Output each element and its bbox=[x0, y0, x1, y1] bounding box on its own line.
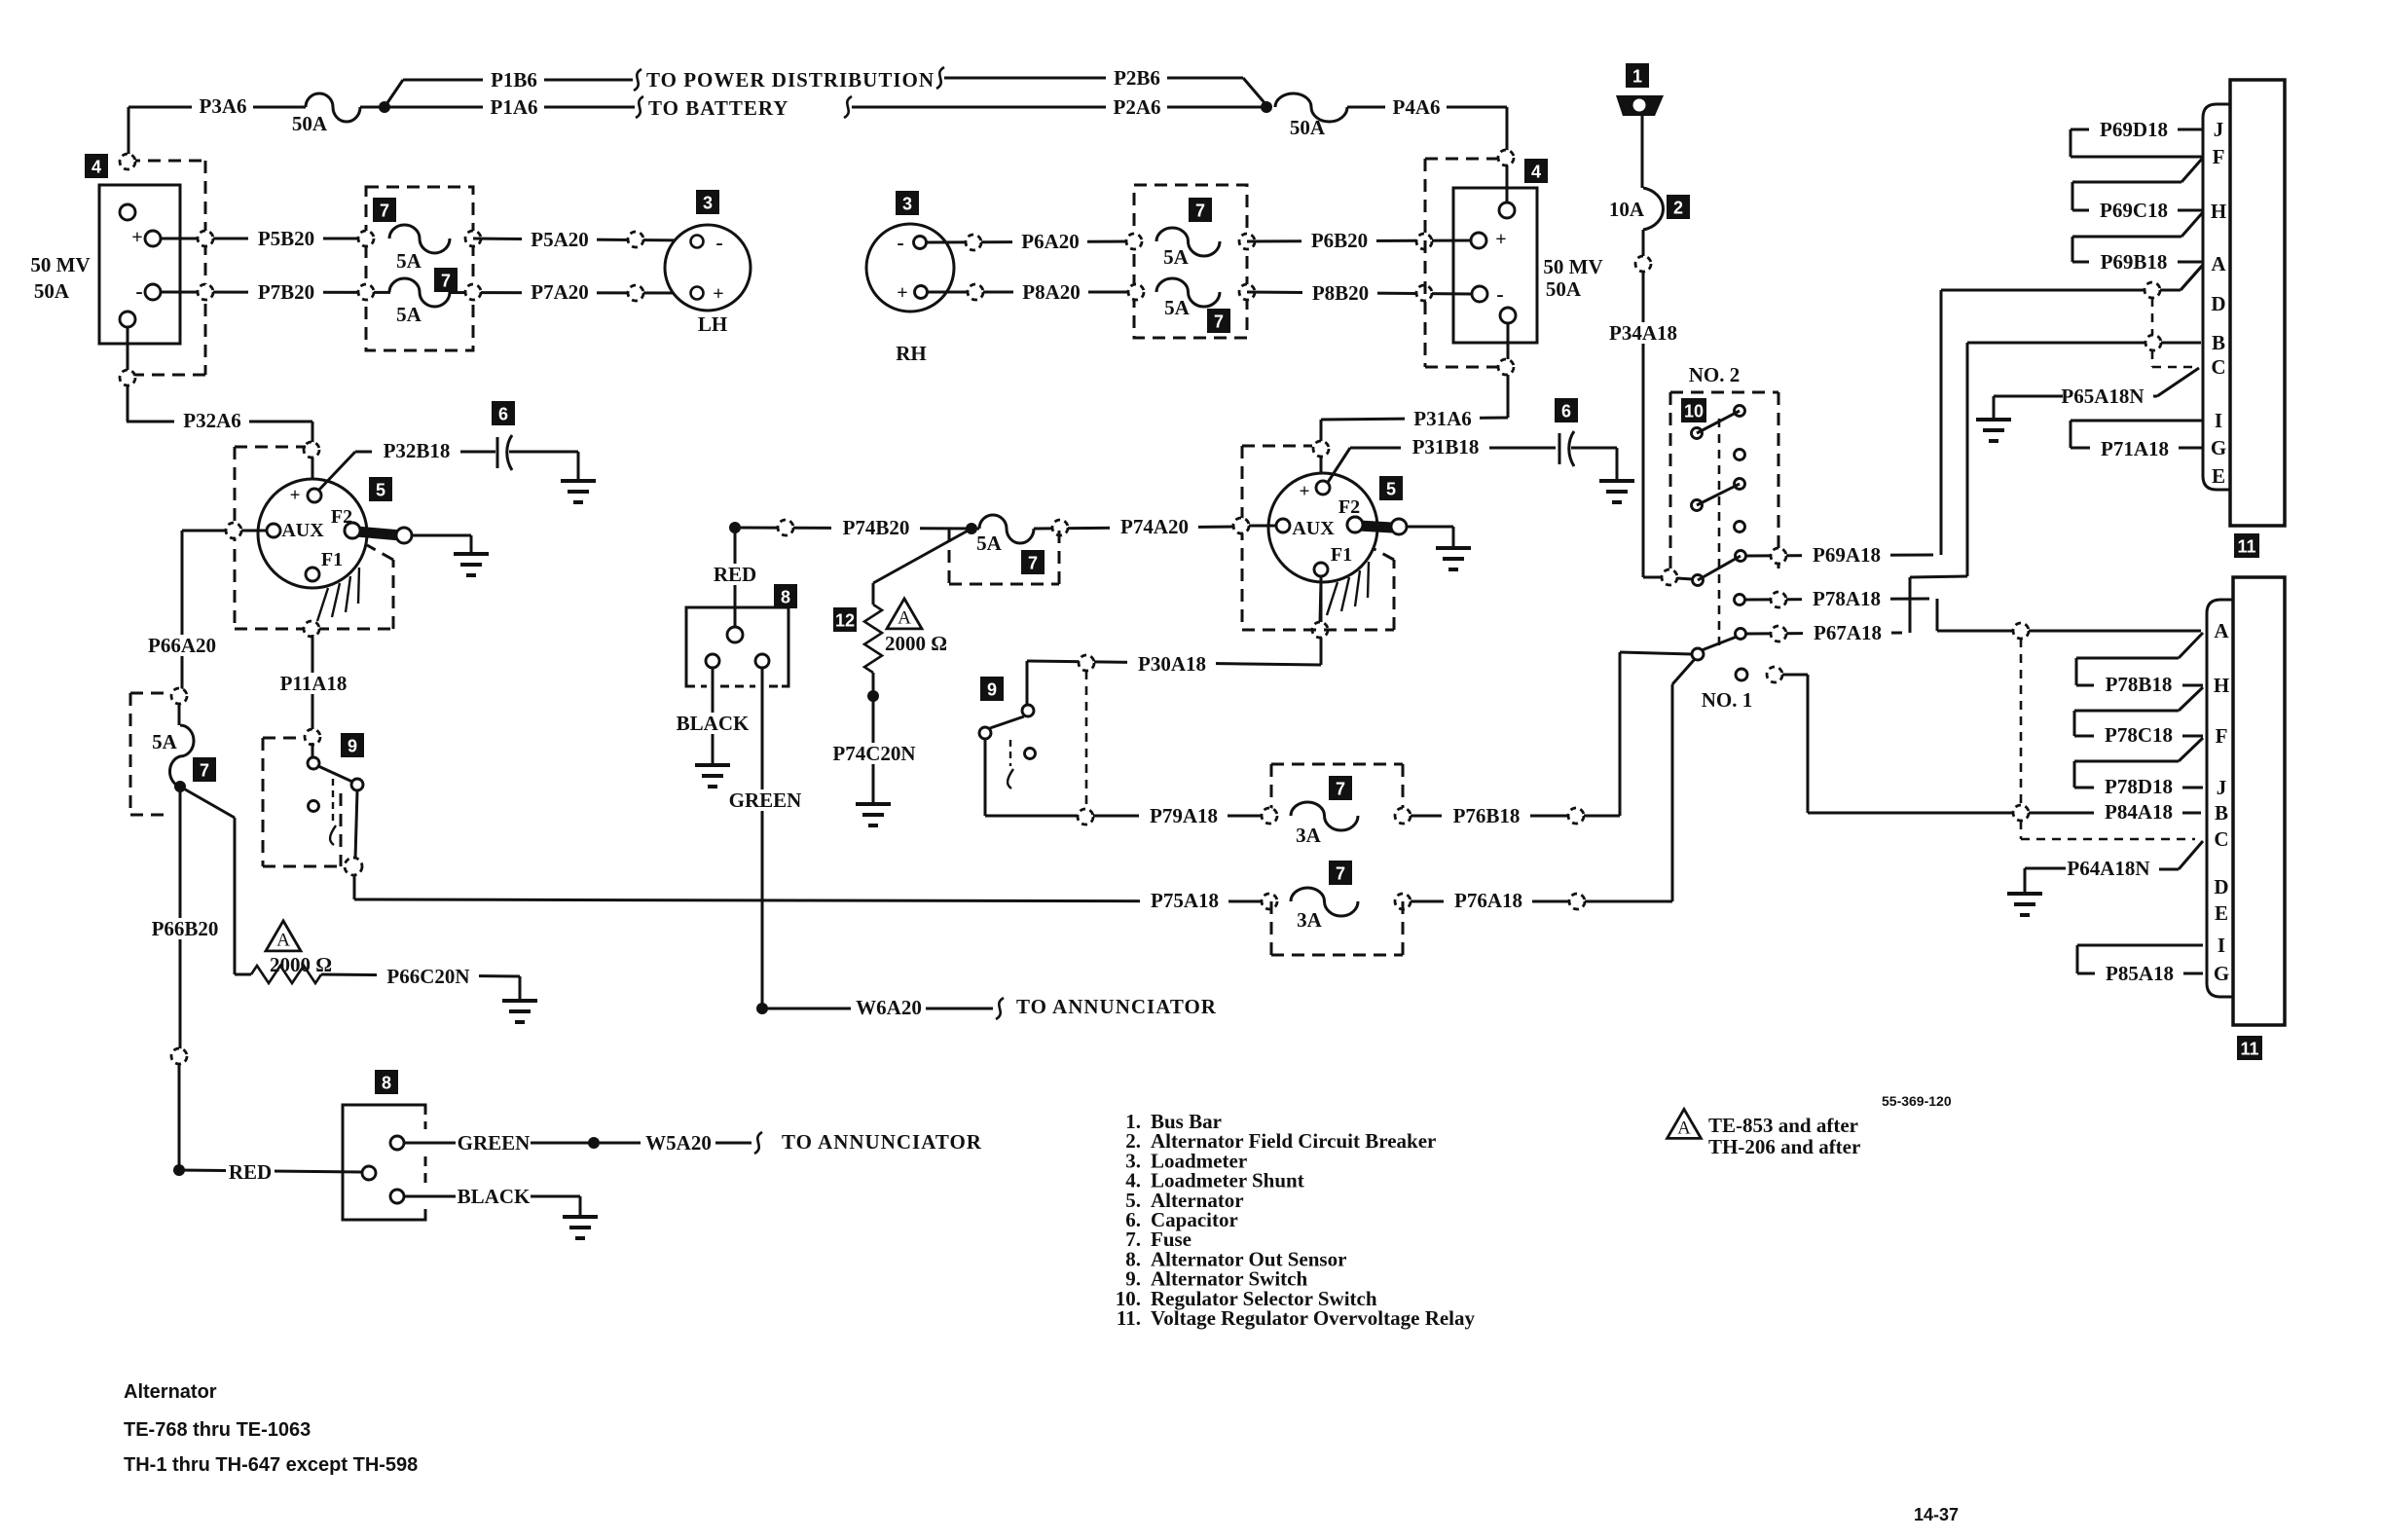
svg-text:50A: 50A bbox=[1290, 116, 1326, 139]
svg-text:P64A18N: P64A18N bbox=[2067, 857, 2149, 880]
svg-text:P67A18: P67A18 bbox=[1814, 621, 1882, 644]
svg-text:+: + bbox=[290, 486, 301, 506]
svg-text:5A: 5A bbox=[1163, 245, 1190, 269]
svg-text:P30A18: P30A18 bbox=[1138, 652, 1206, 676]
svg-text:P75A18: P75A18 bbox=[1151, 889, 1219, 912]
svg-text:B: B bbox=[2212, 331, 2225, 354]
svg-text:P76B18: P76B18 bbox=[1453, 804, 1521, 827]
svg-text:P1B6: P1B6 bbox=[491, 68, 537, 92]
svg-text:+: + bbox=[131, 227, 142, 248]
svg-text:NO. 2: NO. 2 bbox=[1689, 363, 1741, 386]
svg-text:P5B20: P5B20 bbox=[258, 227, 314, 250]
svg-text:TE-768 thru TE-1063: TE-768 thru TE-1063 bbox=[124, 1419, 311, 1441]
svg-text:8: 8 bbox=[382, 1074, 391, 1093]
svg-text:P66C20N: P66C20N bbox=[386, 965, 469, 988]
svg-text:5: 5 bbox=[1386, 480, 1396, 499]
svg-text:7: 7 bbox=[1336, 864, 1345, 884]
svg-text:P32A6: P32A6 bbox=[183, 409, 241, 432]
svg-text:-: - bbox=[897, 231, 903, 255]
svg-text:7: 7 bbox=[380, 202, 389, 221]
svg-text:3: 3 bbox=[703, 194, 713, 213]
svg-text:5A: 5A bbox=[396, 303, 422, 326]
svg-text:10A: 10A bbox=[1609, 198, 1645, 221]
svg-text:+: + bbox=[1300, 482, 1310, 502]
svg-text:P74A20: P74A20 bbox=[1120, 515, 1189, 538]
svg-text:9: 9 bbox=[348, 737, 357, 756]
svg-text:5A: 5A bbox=[152, 730, 178, 753]
svg-text:P65A18N: P65A18N bbox=[2061, 385, 2144, 408]
svg-text:P11A18: P11A18 bbox=[280, 672, 348, 695]
svg-text:AUX: AUX bbox=[1292, 518, 1335, 539]
svg-text:A: A bbox=[276, 931, 290, 951]
svg-text:7: 7 bbox=[1028, 554, 1038, 573]
svg-text:H: H bbox=[2214, 674, 2229, 697]
svg-text:P79A18: P79A18 bbox=[1150, 804, 1218, 827]
svg-text:3: 3 bbox=[902, 195, 912, 214]
svg-text:D: D bbox=[2214, 875, 2228, 898]
svg-text:50 MV: 50 MV bbox=[30, 253, 90, 276]
svg-text:P78D18: P78D18 bbox=[2105, 775, 2173, 798]
svg-text:+: + bbox=[897, 282, 907, 304]
svg-text:-: - bbox=[1496, 282, 1503, 307]
svg-text:TE-853 and after: TE-853 and after bbox=[1708, 1114, 1858, 1137]
svg-text:J: J bbox=[2217, 776, 2227, 799]
svg-text:P8B20: P8B20 bbox=[1312, 281, 1369, 305]
svg-text:D: D bbox=[2211, 292, 2225, 315]
svg-text:4: 4 bbox=[92, 158, 101, 177]
svg-text:I: I bbox=[2218, 934, 2225, 957]
svg-text:-: - bbox=[715, 231, 722, 255]
svg-text:GREEN: GREEN bbox=[458, 1131, 531, 1155]
svg-text:P7B20: P7B20 bbox=[258, 280, 314, 304]
svg-text:NO. 1: NO. 1 bbox=[1702, 688, 1753, 712]
svg-text:Voltage Regulator Overvoltage: Voltage Regulator Overvoltage Relay bbox=[1151, 1306, 1476, 1330]
svg-text:7: 7 bbox=[441, 272, 451, 291]
svg-text:2000 Ω: 2000 Ω bbox=[885, 632, 947, 655]
svg-text:P1A6: P1A6 bbox=[491, 95, 538, 119]
svg-text:P2B6: P2B6 bbox=[1114, 66, 1160, 90]
svg-text:50 MV: 50 MV bbox=[1543, 255, 1602, 278]
svg-text:P85A18: P85A18 bbox=[2106, 962, 2174, 985]
svg-text:Alternator: Alternator bbox=[124, 1381, 217, 1403]
svg-text:P3A6: P3A6 bbox=[200, 94, 247, 118]
svg-text:A: A bbox=[1677, 1118, 1691, 1139]
svg-text:P66A20: P66A20 bbox=[148, 634, 216, 657]
svg-text:10: 10 bbox=[1684, 402, 1704, 422]
svg-text:P76A18: P76A18 bbox=[1454, 889, 1522, 912]
svg-text:3A: 3A bbox=[1297, 908, 1323, 932]
svg-text:J: J bbox=[2214, 118, 2224, 141]
svg-text:P69B18: P69B18 bbox=[2101, 250, 2168, 274]
svg-text:9: 9 bbox=[987, 680, 997, 700]
svg-text:W5A20: W5A20 bbox=[645, 1131, 712, 1155]
svg-text:50A: 50A bbox=[1546, 277, 1582, 301]
svg-text:GREEN: GREEN bbox=[729, 788, 802, 812]
svg-text:I: I bbox=[2215, 409, 2222, 432]
svg-text:E: E bbox=[2215, 901, 2228, 925]
svg-text:P78B18: P78B18 bbox=[2106, 673, 2173, 696]
svg-text:F1: F1 bbox=[321, 549, 343, 570]
svg-text:P74B20: P74B20 bbox=[843, 516, 910, 539]
svg-text:-: - bbox=[135, 279, 142, 304]
svg-text:RH: RH bbox=[896, 342, 927, 365]
svg-text:55-369-120: 55-369-120 bbox=[1882, 1093, 1952, 1109]
svg-text:A: A bbox=[2214, 619, 2229, 642]
svg-text:P6A20: P6A20 bbox=[1021, 230, 1080, 253]
svg-text:F: F bbox=[2213, 145, 2225, 168]
svg-text:2000 Ω: 2000 Ω bbox=[270, 953, 332, 976]
svg-text:P78A18: P78A18 bbox=[1813, 587, 1881, 610]
svg-text:7: 7 bbox=[1195, 202, 1205, 221]
svg-text:BLACK: BLACK bbox=[677, 712, 750, 735]
svg-text:A: A bbox=[898, 608, 911, 629]
svg-text:TO ANNUNCIATOR: TO ANNUNCIATOR bbox=[782, 1130, 982, 1154]
svg-text:B: B bbox=[2215, 801, 2228, 825]
svg-text:P7A20: P7A20 bbox=[531, 280, 589, 304]
svg-text:P69D18: P69D18 bbox=[2100, 118, 2168, 141]
svg-text:RED: RED bbox=[229, 1160, 272, 1184]
svg-text:RED: RED bbox=[714, 563, 756, 586]
svg-text:P34A18: P34A18 bbox=[1609, 321, 1677, 345]
svg-text:14-37: 14-37 bbox=[1914, 1505, 1959, 1524]
svg-text:C: C bbox=[2211, 355, 2225, 379]
svg-text:TH-206 and after: TH-206 and after bbox=[1708, 1135, 1860, 1158]
svg-text:11: 11 bbox=[2240, 1040, 2258, 1059]
svg-text:5A: 5A bbox=[1164, 296, 1191, 319]
svg-text:P78C18: P78C18 bbox=[2105, 723, 2173, 747]
svg-text:TH-1 thru TH-647 except TH-598: TH-1 thru TH-647 except TH-598 bbox=[124, 1454, 418, 1476]
svg-text:P8A20: P8A20 bbox=[1022, 280, 1081, 304]
svg-text:11: 11 bbox=[2237, 537, 2255, 557]
svg-text:F2: F2 bbox=[1338, 496, 1360, 518]
svg-text:P69C18: P69C18 bbox=[2100, 199, 2168, 222]
svg-text:P4A6: P4A6 bbox=[1393, 95, 1441, 119]
svg-text:AUX: AUX bbox=[281, 520, 324, 541]
svg-text:P71A18: P71A18 bbox=[2101, 437, 2169, 460]
svg-text:A: A bbox=[2211, 252, 2226, 275]
svg-text:P2A6: P2A6 bbox=[1114, 95, 1161, 119]
svg-text:7: 7 bbox=[200, 761, 209, 781]
svg-text:E: E bbox=[2212, 464, 2225, 488]
svg-text:P31A6: P31A6 bbox=[1413, 407, 1472, 430]
svg-text:F: F bbox=[2216, 724, 2228, 748]
svg-text:4: 4 bbox=[1531, 163, 1541, 182]
svg-text:C: C bbox=[2214, 827, 2228, 851]
svg-text:50A: 50A bbox=[292, 112, 328, 135]
svg-text:8: 8 bbox=[781, 588, 790, 607]
svg-text:6: 6 bbox=[498, 405, 508, 424]
svg-text:TO POWER DISTRIBUTION: TO POWER DISTRIBUTION bbox=[646, 68, 935, 92]
svg-text:P31B18: P31B18 bbox=[1412, 435, 1480, 458]
svg-text:5: 5 bbox=[376, 481, 385, 500]
svg-text:G: G bbox=[2211, 436, 2226, 459]
svg-text:50A: 50A bbox=[34, 279, 70, 303]
svg-text:5A: 5A bbox=[976, 532, 1003, 555]
svg-text:7: 7 bbox=[1336, 780, 1345, 799]
svg-text:P32B18: P32B18 bbox=[384, 439, 451, 462]
svg-text:6: 6 bbox=[1561, 402, 1571, 422]
svg-text:P84A18: P84A18 bbox=[2105, 800, 2173, 824]
svg-text:12: 12 bbox=[835, 611, 855, 631]
svg-text:5A: 5A bbox=[396, 249, 422, 273]
svg-text:TO BATTERY: TO BATTERY bbox=[648, 96, 788, 120]
svg-text:3A: 3A bbox=[1296, 824, 1322, 847]
svg-text:+: + bbox=[1495, 229, 1506, 250]
svg-text:7: 7 bbox=[1214, 312, 1224, 332]
svg-text:W6A20: W6A20 bbox=[856, 996, 922, 1019]
svg-text:P66B20: P66B20 bbox=[152, 917, 219, 940]
svg-text:G: G bbox=[2214, 962, 2229, 985]
svg-text:F1: F1 bbox=[1331, 544, 1352, 566]
svg-text:LH: LH bbox=[698, 312, 727, 336]
svg-text:H: H bbox=[2211, 200, 2226, 223]
svg-text:+: + bbox=[713, 283, 723, 305]
svg-text:P69A18: P69A18 bbox=[1813, 543, 1881, 567]
svg-text:P5A20: P5A20 bbox=[531, 228, 589, 251]
svg-text:1: 1 bbox=[1632, 67, 1642, 87]
svg-text:P6B20: P6B20 bbox=[1311, 229, 1368, 252]
svg-text:TO ANNUNCIATOR: TO ANNUNCIATOR bbox=[1016, 995, 1217, 1018]
svg-text:P74C20N: P74C20N bbox=[832, 742, 915, 765]
svg-text:11.: 11. bbox=[1117, 1306, 1141, 1330]
svg-text:BLACK: BLACK bbox=[458, 1185, 531, 1208]
svg-text:2: 2 bbox=[1673, 199, 1683, 218]
